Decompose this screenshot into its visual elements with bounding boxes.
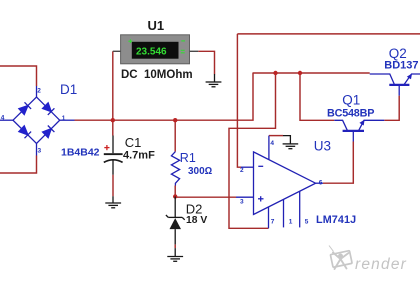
svg-text:D1: D1	[60, 82, 77, 97]
svg-text:DC 10MOhm: DC 10MOhm	[121, 69, 193, 81]
svg-text:4: 4	[1, 115, 5, 122]
svg-text:3: 3	[38, 147, 42, 154]
svg-text:18 V: 18 V	[186, 215, 207, 226]
svg-text:1: 1	[62, 115, 66, 122]
svg-text:U1: U1	[148, 18, 165, 33]
svg-text:1B4B42: 1B4B42	[61, 147, 100, 159]
svg-text:2: 2	[37, 88, 41, 95]
svg-text:23.546: 23.546	[136, 47, 167, 58]
svg-text:7: 7	[271, 218, 275, 225]
svg-text:6: 6	[319, 180, 323, 187]
svg-text:C1: C1	[125, 135, 142, 150]
svg-text:U3: U3	[314, 138, 331, 153]
svg-text:5: 5	[305, 219, 309, 226]
svg-text:1: 1	[289, 219, 293, 226]
svg-text:2: 2	[240, 167, 244, 174]
svg-text:4.7mF: 4.7mF	[123, 150, 155, 162]
svg-text:Q1: Q1	[342, 93, 360, 108]
svg-text:render: render	[355, 256, 407, 273]
svg-text:Q2: Q2	[389, 46, 407, 61]
svg-text:BC548BP: BC548BP	[327, 108, 374, 120]
svg-text:4: 4	[270, 140, 274, 147]
svg-text:3: 3	[240, 198, 244, 205]
svg-text:BD137: BD137	[384, 60, 418, 72]
svg-text:R1: R1	[180, 151, 196, 165]
svg-text:LM741J: LM741J	[316, 214, 356, 226]
svg-text:300Ω: 300Ω	[188, 166, 213, 177]
